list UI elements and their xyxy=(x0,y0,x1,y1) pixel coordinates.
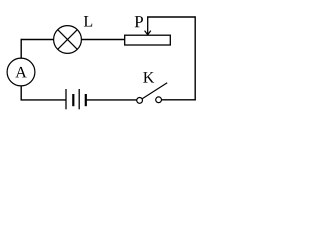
rheostat label P xyxy=(135,16,143,27)
lamp L circle xyxy=(54,26,82,54)
wire left vertical (corner down to ammeter) xyxy=(20,39,22,59)
switch K lever xyxy=(142,83,167,99)
battery long plate 2 xyxy=(78,89,80,109)
wire bottom-right (corner to switch) xyxy=(161,99,196,101)
rheostat slider shaft xyxy=(147,17,149,35)
wire bottom-left horizontal (to battery) xyxy=(21,99,67,101)
switch K pivot circle xyxy=(137,98,143,104)
rheostat P body xyxy=(125,35,171,45)
lamp cross diagonal 1 xyxy=(58,30,78,50)
wire slider to top-right corner xyxy=(147,16,195,18)
ammeter A1 circle xyxy=(7,58,35,86)
switch label K xyxy=(143,72,154,82)
rheostat slider arrowhead xyxy=(145,31,151,35)
lamp cross diagonal 2 xyxy=(58,30,78,50)
wire lamp to rheostat xyxy=(82,39,125,41)
battery short plate 2 xyxy=(85,94,87,106)
ammeter label A xyxy=(15,67,26,78)
wire below ammeter xyxy=(20,86,22,101)
switch K contact circle xyxy=(156,97,162,103)
wire right vertical xyxy=(194,16,196,100)
lamp label L xyxy=(84,16,92,26)
wire battery to switch xyxy=(87,99,137,101)
battery long plate 1 xyxy=(65,89,67,109)
battery short plate 1 xyxy=(72,94,74,106)
wire top-left horizontal (corner to lamp) xyxy=(21,39,54,41)
